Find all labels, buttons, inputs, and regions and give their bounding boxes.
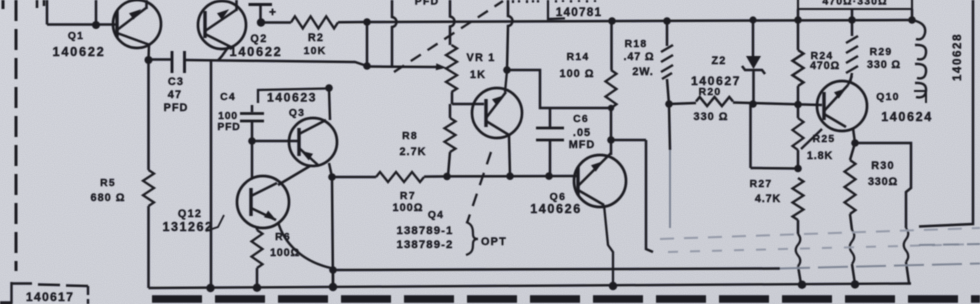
svg-text:1K: 1K	[470, 69, 486, 81]
wire	[235, 0, 238, 11]
wire	[332, 270, 335, 287]
wire	[249, 5, 273, 23]
node junction	[665, 100, 673, 108]
wire	[47, 23, 117, 26]
svg-text:R18: R18	[625, 39, 648, 50]
label clipped	[513, 0, 538, 3]
diode Z2	[742, 20, 765, 104]
svg-text:140617: 140617	[26, 290, 74, 304]
wire	[666, 21, 669, 46]
svg-text:100Ω: 100Ω	[393, 202, 424, 214]
resistor R30	[845, 160, 856, 214]
svg-text:2W.: 2W.	[632, 66, 653, 78]
svg-text:47: 47	[168, 89, 183, 101]
svg-text:1.8K: 1.8K	[807, 150, 833, 162]
node junction	[848, 16, 856, 24]
svg-text:100: 100	[218, 111, 238, 122]
node junction	[363, 62, 371, 70]
inductor coil	[912, 20, 926, 97]
dashed gang line	[394, 1, 503, 72]
wire	[852, 264, 855, 284]
wire	[919, 0, 973, 227]
dashed gang line	[467, 152, 491, 223]
svg-text:140622: 140622	[53, 44, 106, 59]
svg-text:100Ω: 100Ω	[270, 247, 300, 259]
wire	[604, 205, 613, 286]
resistor R8	[445, 118, 456, 152]
resistor R14	[606, 70, 617, 108]
node junction	[328, 173, 336, 181]
wire	[251, 141, 254, 179]
wiper arrow VR1	[436, 63, 447, 70]
resistor R18	[661, 45, 673, 79]
wire	[801, 129, 822, 149]
wire	[797, 150, 800, 169]
node junction	[329, 266, 337, 274]
svg-text:140781: 140781	[556, 5, 603, 19]
potentiometer VR1	[446, 45, 457, 92]
svg-text:+: +	[269, 5, 276, 19]
svg-text:.47 Ω: .47 Ω	[624, 51, 655, 63]
resistor ghost R27	[796, 234, 801, 266]
wire	[549, 140, 552, 176]
wire	[669, 103, 696, 104]
resistor R29	[846, 36, 858, 73]
svg-text:C3: C3	[168, 76, 184, 88]
resistor R27	[793, 178, 804, 220]
wire	[611, 139, 646, 142]
wire	[749, 104, 752, 168]
svg-text:Z2: Z2	[711, 55, 726, 67]
resistor R25	[793, 118, 804, 150]
wire	[329, 163, 333, 287]
wire	[448, 152, 450, 176]
wire	[669, 150, 671, 228]
node junction	[794, 16, 802, 24]
node junction	[609, 282, 617, 290]
svg-text:R2: R2	[308, 32, 324, 44]
wire	[850, 143, 855, 160]
wire	[218, 46, 229, 61]
transistor Q1	[113, 0, 161, 48]
faded line	[660, 228, 980, 239]
node junction	[363, 18, 371, 26]
node junction	[503, 66, 511, 74]
svg-text:VR 1: VR 1	[466, 52, 495, 64]
svg-text:330Ω: 330Ω	[868, 176, 898, 188]
wire	[507, 0, 513, 70]
bracket	[914, 91, 926, 103]
wire	[509, 135, 510, 176]
wire	[145, 0, 148, 9]
ground rail	[149, 284, 912, 289]
wire	[851, 9, 854, 20]
wire	[855, 143, 911, 228]
svg-text:R7: R7	[400, 191, 416, 202]
wire	[505, 71, 507, 92]
wire	[185, 60, 368, 66]
svg-text:4.7K: 4.7K	[755, 193, 781, 205]
box 140623	[258, 89, 326, 105]
node junction	[908, 16, 916, 24]
svg-text:Q4: Q4	[428, 210, 444, 221]
svg-text:100 Ω: 100 Ω	[560, 68, 595, 80]
svg-text:R29: R29	[870, 47, 893, 58]
wire	[278, 222, 333, 269]
wire	[507, 70, 608, 108]
wire	[252, 140, 299, 143]
svg-text:OPT: OPT	[481, 236, 507, 248]
wire	[449, 104, 452, 118]
wire	[848, 76, 852, 85]
node junction	[443, 173, 451, 181]
svg-text:R6: R6	[275, 232, 291, 243]
wire	[147, 44, 150, 60]
wire	[549, 108, 552, 128]
wire	[366, 22, 369, 66]
wire	[147, 60, 150, 170]
resistor R7	[376, 172, 424, 182]
bracket OPT	[466, 222, 478, 255]
wire	[278, 166, 310, 185]
transistor Q3	[289, 118, 337, 166]
wire	[797, 20, 800, 50]
node junction	[749, 16, 756, 23]
wire	[733, 103, 822, 106]
wire	[646, 140, 653, 252]
svg-text:R5: R5	[100, 178, 116, 189]
node junction	[248, 137, 256, 145]
wire	[853, 128, 855, 143]
wire	[850, 214, 852, 230]
node junction	[329, 283, 337, 291]
svg-text:330 Ω: 330 Ω	[867, 59, 901, 71]
svg-text:Q10: Q10	[876, 91, 899, 103]
wire	[450, 0, 455, 45]
wire	[751, 167, 798, 170]
wire	[367, 65, 437, 68]
node junction	[851, 280, 859, 288]
wire	[451, 92, 454, 104]
svg-text:138789-2: 138789-2	[397, 239, 454, 251]
svg-text:Q3: Q3	[289, 108, 305, 119]
wire	[797, 86, 800, 104]
node junction	[145, 56, 153, 64]
border mark	[0, 301, 12, 304]
wire	[610, 108, 613, 155]
resistor ghost	[904, 228, 909, 262]
svg-text:138789-1: 138789-1	[397, 225, 454, 237]
node junction	[506, 172, 514, 180]
wire	[447, 175, 578, 178]
wire	[797, 9, 800, 20]
resistor ghost R30	[850, 230, 855, 264]
svg-text:C4: C4	[220, 92, 236, 103]
svg-text:PFD: PFD	[164, 102, 189, 114]
resistor R5	[143, 170, 154, 206]
faded line	[668, 244, 980, 252]
svg-text:R14: R14	[567, 52, 590, 63]
svg-text:10K: 10K	[304, 45, 327, 57]
wire	[911, 9, 914, 20]
node junction	[325, 84, 333, 92]
wire	[392, 0, 397, 67]
resistor R6	[252, 230, 263, 268]
resistor R24	[793, 50, 804, 86]
transistor Q2	[198, 1, 246, 49]
wire	[256, 268, 259, 287]
capacitor C6	[536, 128, 564, 140]
wire	[798, 266, 801, 284]
wire	[149, 58, 172, 61]
wire	[452, 103, 484, 106]
wire	[424, 175, 447, 178]
wire	[256, 226, 259, 230]
wire	[610, 21, 613, 70]
svg-text:140626: 140626	[530, 202, 582, 216]
wire	[669, 104, 670, 150]
wire	[210, 61, 213, 288]
wire	[606, 153, 611, 158]
svg-text:140622: 140622	[230, 44, 283, 59]
svg-text:R30: R30	[871, 160, 895, 172]
svg-text:PFD: PFD	[217, 122, 240, 133]
svg-text:680 Ω: 680 Ω	[91, 192, 126, 204]
wire	[251, 105, 254, 112]
node junction	[607, 136, 615, 144]
svg-text:PFD: PFD	[415, 0, 440, 8]
box 140781	[548, 0, 602, 19]
svg-text:140628: 140628	[951, 33, 964, 81]
node junction	[794, 165, 802, 173]
wire	[333, 269, 780, 271]
wire	[850, 73, 852, 83]
svg-text:140627: 140627	[691, 74, 741, 88]
box values	[798, 0, 912, 9]
resistor R20	[696, 97, 733, 106]
wire	[667, 79, 669, 104]
wire	[329, 88, 330, 120]
wire	[147, 206, 150, 288]
wire	[367, 20, 912, 22]
node junction	[253, 284, 261, 292]
faded line	[780, 264, 980, 269]
svg-text:R8: R8	[402, 131, 418, 142]
wire	[906, 262, 909, 283]
wire	[95, 0, 98, 25]
wire	[919, 244, 980, 245]
svg-text:2.7K: 2.7K	[399, 146, 426, 158]
wire	[46, 0, 49, 25]
leader	[206, 215, 224, 231]
node junction	[608, 17, 616, 25]
node junction	[749, 100, 757, 108]
label clipped	[556, 0, 595, 3]
node junction	[206, 284, 214, 292]
resistor R2	[291, 16, 338, 28]
capacitor C4	[240, 114, 264, 122]
svg-text:131262: 131262	[162, 220, 213, 234]
svg-text:470Ω·330Ω: 470Ω·330Ω	[822, 0, 887, 8]
capacitor C3	[172, 51, 185, 73]
node junction	[851, 139, 859, 147]
node junction	[794, 101, 802, 109]
transistor Q12	[237, 176, 289, 228]
node junction	[92, 21, 100, 29]
node junction	[663, 17, 671, 25]
node junction	[545, 172, 553, 180]
box 140617	[12, 282, 89, 304]
svg-text:140624: 140624	[881, 110, 933, 124]
svg-text:R20: R20	[699, 87, 722, 98]
wire	[797, 105, 800, 119]
node junction	[257, 18, 265, 26]
svg-text:R27: R27	[750, 179, 773, 190]
wire	[851, 20, 854, 36]
svg-text:Q12: Q12	[178, 208, 202, 220]
node junction	[608, 105, 614, 111]
wire	[338, 21, 367, 24]
transistor Q4	[472, 88, 522, 138]
svg-text:MFD: MFD	[569, 139, 596, 151]
wire	[251, 121, 254, 140]
svg-text:470Ω: 470Ω	[810, 60, 840, 72]
wire	[797, 220, 800, 234]
transistor Q6	[574, 155, 626, 207]
svg-text:140623: 140623	[267, 91, 317, 105]
svg-text:.05: .05	[573, 127, 591, 139]
svg-text:Q1: Q1	[68, 31, 84, 42]
svg-text:C6: C6	[573, 114, 589, 125]
transistor Q10	[817, 81, 867, 131]
wire	[261, 21, 291, 24]
svg-text:330 Ω: 330 Ω	[694, 111, 729, 123]
node junction	[798, 281, 806, 289]
wire	[333, 176, 376, 179]
